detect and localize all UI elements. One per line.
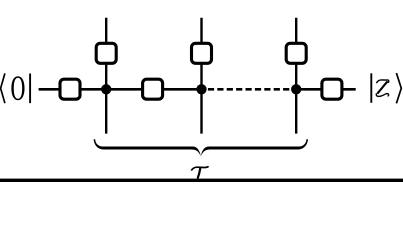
- label τ: [191, 166, 208, 178]
- gate box on vertical wire 2: [192, 43, 212, 63]
- main horizontal wire (left solid segment): [39, 88, 202, 91]
- gate box on vertical wire 1: [96, 43, 116, 63]
- junction dot 3: [291, 84, 301, 94]
- ket label |z⟩: [371, 73, 401, 103]
- vertical wire 3: [295, 18, 297, 134]
- gate box on main wire 3: [322, 79, 342, 99]
- gate box on main wire 2: [143, 79, 163, 99]
- bottom rule: [0, 179, 403, 182]
- main horizontal wire (right solid segment): [296, 88, 356, 91]
- gate box on vertical wire 3: [286, 43, 306, 63]
- vertical wire 2: [200, 18, 202, 134]
- gate box on main wire 1: [60, 79, 80, 99]
- main horizontal wire (dashed segment): [208, 88, 290, 91]
- junction dot 2: [196, 84, 206, 94]
- underbrace: [94, 139, 308, 156]
- junction dot 1: [101, 84, 111, 94]
- vertical wire 1: [105, 18, 107, 134]
- bra label ⟨0|: [1, 73, 31, 103]
